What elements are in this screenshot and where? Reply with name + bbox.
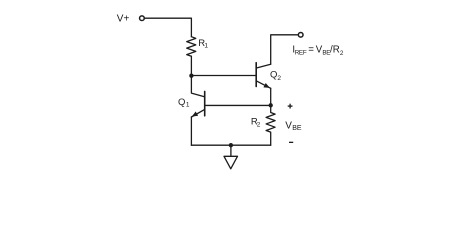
svg-text:V: V bbox=[285, 121, 292, 132]
svg-text:Q: Q bbox=[270, 69, 277, 80]
resistor R2 bbox=[266, 105, 275, 145]
label - (VBE minus) bbox=[289, 142, 293, 143]
wire V+ to R1 top bbox=[145, 18, 192, 37]
wire Q1 emitter to bottom rail bbox=[190, 117, 192, 145]
node ground junction bbox=[229, 143, 233, 147]
svg-text:2: 2 bbox=[257, 121, 261, 128]
label IREF = VBE/R2 bbox=[292, 44, 344, 57]
transistor Q2 bbox=[256, 63, 271, 89]
node B bbox=[269, 103, 273, 107]
wire R1 bottom to node A and down to Q1 collector bbox=[191, 56, 204, 96]
svg-text:V+: V+ bbox=[117, 14, 130, 25]
wire bottom rail bbox=[191, 144, 270, 146]
svg-text:BE: BE bbox=[292, 125, 302, 132]
svg-text:2: 2 bbox=[277, 75, 281, 82]
node A bbox=[189, 74, 193, 78]
wire node A to Q2 base bbox=[191, 75, 255, 77]
label + (VBE plus) bbox=[288, 104, 293, 109]
svg-text:REF: REF bbox=[295, 49, 307, 56]
terminal V+ bbox=[140, 16, 145, 21]
ground bbox=[224, 145, 238, 169]
transistor Q1 bbox=[191, 91, 204, 117]
svg-text:=: = bbox=[308, 44, 314, 55]
svg-text:Q: Q bbox=[178, 97, 185, 108]
terminal IREF output bbox=[298, 32, 303, 37]
wire Q1 base to node B bbox=[205, 104, 271, 106]
svg-text:R: R bbox=[333, 44, 340, 55]
resistor R1 bbox=[187, 37, 196, 57]
wire Q2 emitter to node B bbox=[270, 88, 272, 105]
svg-text:1: 1 bbox=[186, 101, 190, 108]
wire Q2 collector to output terminal bbox=[271, 35, 298, 64]
svg-text:1: 1 bbox=[204, 43, 208, 50]
svg-text:2: 2 bbox=[340, 50, 344, 57]
